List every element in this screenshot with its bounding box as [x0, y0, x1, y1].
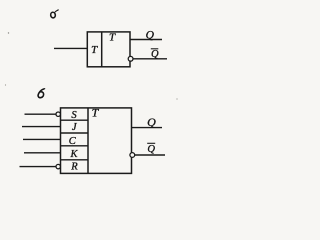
svg-text:S: S: [71, 110, 77, 121]
overbar of Q̄ label (U2): [147, 142, 155, 144]
scan speck: [5, 84, 6, 85]
inversion bubble on R input: [56, 164, 60, 168]
wire: output Q̄ of U2: [135, 154, 165, 156]
inversion bubble on U2 inverted output: [130, 153, 135, 158]
wire: J input: [22, 126, 61, 128]
scan speck: [176, 98, 177, 99]
svg-text:Q: Q: [147, 144, 155, 155]
svg-text:Q: Q: [151, 49, 159, 60]
label б (sub-figure b): [50, 10, 58, 19]
flip-flop U1 body (T trigger): [87, 32, 130, 67]
svg-text:K: K: [69, 149, 78, 160]
paper background: [0, 0, 204, 188]
svg-text:R: R: [70, 162, 78, 173]
label в (sub-figure v): [38, 89, 45, 98]
wire: C input: [23, 138, 61, 140]
wire: S input: [25, 113, 57, 115]
wire: R input: [20, 166, 57, 168]
wire: output Q̄ of U1: [133, 58, 167, 60]
svg-text:T: T: [109, 32, 116, 44]
svg-text:Q: Q: [146, 30, 155, 42]
wire: output Q of U1: [130, 39, 162, 41]
inversion bubble on S input: [56, 112, 60, 116]
svg-text:C: C: [69, 136, 77, 147]
cell separator C/K: [61, 145, 89, 147]
wire: output Q of U2: [132, 127, 163, 129]
scan speck: [8, 32, 9, 33]
wire: K input: [24, 152, 61, 154]
cell separator K/R: [61, 159, 89, 161]
cell separator S/J: [61, 119, 89, 121]
divider of flip-flop U2: [87, 108, 89, 173]
inversion bubble on U1 inverted output: [128, 56, 133, 61]
overbar of Q̄ label (U1): [151, 48, 159, 50]
svg-text:Q: Q: [147, 115, 156, 129]
flip-flop U2 body (universal JK trigger): [61, 108, 132, 173]
cell separator J/C: [61, 132, 89, 134]
divider of flip-flop U1: [101, 32, 103, 67]
svg-text:T: T: [91, 44, 98, 56]
wire: input line to T flip-flop: [54, 47, 88, 49]
